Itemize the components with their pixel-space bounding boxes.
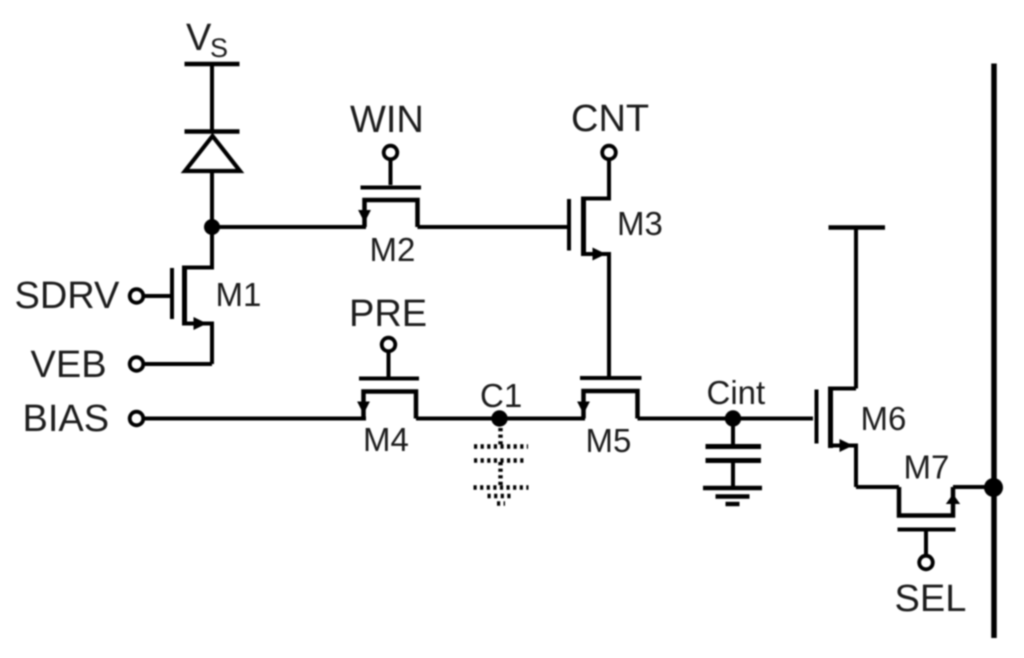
svg-text:S: S [210, 33, 228, 63]
wire M6 source to M7 [856, 485, 899, 489]
ground bar 3 [726, 502, 740, 506]
wire M5 to M6 gate through node Cint [638, 417, 814, 421]
wire diode to node A [210, 172, 214, 227]
dotted ground bar 2 [488, 494, 514, 498]
svg-text:V: V [186, 17, 212, 59]
terminal SDRV [130, 289, 144, 303]
wire CNT to M3 drain [585, 160, 609, 199]
svg-text:CNT: CNT [571, 98, 649, 140]
dotted ground bar 3 [497, 501, 505, 505]
svg-text:M3: M3 [617, 205, 663, 242]
dotted wire C1 to ground [498, 462, 502, 485]
power rail bar (M6 drain) [829, 225, 886, 230]
diode D1 triangle [185, 136, 240, 171]
terminal PRE [382, 338, 396, 352]
wire node A to M2 source [212, 225, 366, 229]
node C1 junction dot [491, 410, 507, 426]
ground bar 2 [716, 494, 750, 498]
parasitic capacitor C1 dotted lead [498, 428, 502, 446]
wire WIN to M2 gate [389, 160, 393, 186]
transistor M7 [898, 487, 961, 530]
wire rail to M6 drain [854, 230, 858, 389]
wire VEB to M1 source [144, 362, 213, 366]
capacitor Cint top plate [706, 444, 762, 449]
capacitor C1 dotted bottom plate [474, 458, 526, 463]
transistor M2 [358, 188, 421, 228]
transistor M1 [172, 227, 212, 364]
wire PRE to M4 gate [387, 352, 391, 377]
svg-text:M5: M5 [586, 422, 632, 459]
wire VS to diode [210, 64, 214, 132]
transistor M5 [577, 378, 641, 419]
node bus junction dot [984, 478, 1003, 497]
terminal BIAS [130, 412, 144, 426]
svg-text:M1: M1 [216, 276, 262, 313]
svg-text:M4: M4 [363, 421, 409, 458]
dotted ground bar 1 [474, 485, 529, 490]
wire M4 to M5 through node C1 [416, 417, 585, 421]
transistor M3 [569, 197, 609, 377]
node Cint junction dot [725, 410, 741, 426]
svg-text:BIAS: BIAS [23, 398, 110, 440]
wire M2 drain to M3 gate [418, 225, 568, 229]
node A junction dot [204, 219, 220, 235]
column bus line [991, 64, 997, 639]
wire BIAS to M4 [144, 417, 367, 421]
label VS [186, 17, 228, 63]
wire Cint to ground [731, 463, 735, 486]
wire M7 drain to bus [953, 485, 992, 489]
svg-text:M6: M6 [861, 400, 907, 437]
svg-text:M2: M2 [370, 231, 416, 268]
wire M7 gate to SEL [924, 532, 928, 556]
transistor M6 [817, 387, 857, 488]
wire SDRV to M1 gate [144, 294, 171, 298]
svg-text:M7: M7 [904, 449, 950, 486]
capacitor Cint bottom plate [706, 458, 762, 463]
svg-text:VEB: VEB [31, 344, 107, 386]
terminal WIN [384, 146, 398, 160]
svg-text:SDRV: SDRV [15, 275, 121, 317]
power rail VS bar [185, 62, 240, 67]
terminal CNT [602, 146, 616, 160]
capacitor C1 dotted top plate [474, 444, 528, 449]
svg-text:C1: C1 [480, 377, 522, 414]
svg-text:PRE: PRE [349, 293, 427, 335]
terminal VEB [130, 357, 144, 371]
svg-text:WIN: WIN [350, 99, 424, 141]
terminal SEL [919, 556, 933, 570]
transistor M4 [357, 379, 419, 419]
svg-text:Cint: Cint [707, 374, 766, 411]
diode D1 cathode bar [185, 129, 240, 134]
ground bar 1 [703, 486, 762, 491]
svg-text:SEL: SEL [895, 578, 967, 620]
capacitor Cint top lead [731, 419, 735, 445]
